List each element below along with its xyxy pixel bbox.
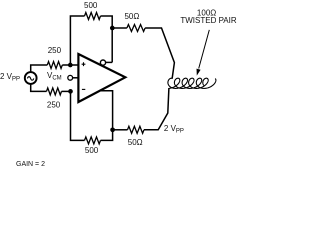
- svg-text:VCM: VCM: [47, 71, 62, 82]
- svg-text:500: 500: [85, 146, 99, 155]
- svg-text:50Ω: 50Ω: [124, 12, 139, 21]
- svg-text:500: 500: [84, 1, 98, 10]
- svg-text:2 VPP: 2 VPP: [0, 72, 20, 83]
- svg-text:250: 250: [48, 46, 62, 55]
- svg-text:TWISTED PAIR: TWISTED PAIR: [180, 16, 237, 25]
- svg-text:GAIN = 2: GAIN = 2: [16, 161, 45, 168]
- svg-text:250: 250: [47, 101, 61, 110]
- svg-text:50Ω: 50Ω: [128, 138, 143, 147]
- svg-text:2 VPP: 2 VPP: [164, 124, 184, 135]
